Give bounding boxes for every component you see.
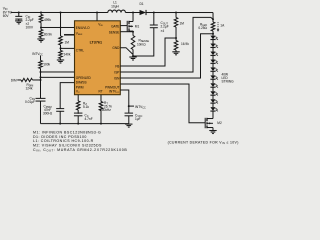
svg-text:RT: RT — [98, 90, 102, 94]
resistor 80.9k — [39, 27, 43, 39]
wire GATE pin to M1 — [120, 25, 127, 27]
wire SENSE pin to source node — [120, 31, 133, 33]
svg-text:INTVCC: INTVCC — [32, 52, 43, 57]
svg-text:1M: 1M — [65, 40, 70, 44]
wire INTVCC pin right and down — [120, 90, 129, 106]
wire VIN pin to rail — [96, 12, 98, 20]
LED D11 in string — [210, 107, 218, 115]
label COUT — [161, 21, 169, 33]
pin label GND — [112, 46, 120, 50]
pin label PWMOUT — [105, 85, 119, 89]
label 1M — [65, 40, 70, 44]
ground EN divider — [37, 39, 44, 42]
svg-text:1A: 1A — [220, 24, 225, 28]
pin label RT — [98, 90, 102, 94]
svg-text:DIM: DIM — [11, 78, 17, 82]
svg-text:FB: FB — [115, 64, 119, 68]
node junction CIN on VIN rail — [18, 11, 20, 13]
label 140k — [64, 53, 71, 57]
pin label DIM/SS — [76, 80, 87, 84]
resistor 100k — [39, 56, 43, 72]
label CSS — [25, 96, 35, 104]
node junction OPENLED — [40, 71, 42, 73]
capacitor COUT — [150, 13, 158, 28]
wire GND pin to ground node — [120, 48, 133, 55]
svg-text:140k: 140k — [64, 53, 71, 57]
LED D9 in string — [210, 91, 218, 99]
pin label OPENLED — [76, 76, 92, 80]
wire node down to CSS — [39, 80, 41, 99]
label D1 — [139, 2, 143, 6]
resistor 499k — [39, 12, 43, 27]
capacitor CPWM — [56, 109, 64, 124]
pin label GATE — [111, 25, 119, 29]
label M2 — [217, 121, 222, 125]
resistor 16.9k — [174, 38, 178, 52]
pin label VREF — [76, 32, 83, 36]
LED D4 in string — [210, 52, 218, 60]
LED D7 in string — [210, 75, 218, 83]
resistor 1M FB — [174, 13, 178, 39]
svg-text:499k: 499k — [44, 18, 51, 22]
pin label ISN — [114, 76, 120, 80]
label 499k — [44, 18, 51, 22]
inductor L1 — [108, 10, 126, 12]
wire bottom ground rail — [40, 123, 128, 125]
node DIM input label — [11, 78, 17, 82]
node junction COUT on rail — [153, 12, 155, 14]
svg-text:5.1k: 5.1k — [83, 105, 89, 109]
label RZ — [83, 102, 89, 110]
ground M2 — [209, 131, 216, 134]
wire FB pin to divider tap — [120, 38, 176, 66]
wire M1 drain to rail — [132, 13, 134, 22]
node CTRL tap — [60, 47, 62, 49]
LED D8 in string — [210, 83, 218, 91]
node junction INTVCC label tap — [128, 105, 134, 107]
resistor RZ 5.1k — [76, 101, 80, 114]
ground 16.9k — [172, 52, 179, 55]
label CVCC — [135, 114, 143, 122]
label RDIM — [25, 83, 33, 91]
wire DIMSS to pin — [41, 76, 75, 78]
wire top rail from VIN to L1 — [11, 11, 108, 13]
capacitor CSS — [35, 98, 45, 123]
svg-text:OPENLED: OPENLED — [76, 76, 92, 80]
wire CTRL tap to pin — [61, 47, 75, 49]
pin label ISP — [114, 70, 119, 74]
label component notes — [33, 130, 127, 152]
LED D2 in string — [210, 36, 218, 44]
node junction RDIM — [39, 79, 41, 81]
svg-text:M1: M1 — [135, 24, 140, 28]
svg-text:0.25Ω: 0.25Ω — [198, 26, 207, 30]
svg-text:2.2µF: 2.2µF — [161, 25, 169, 29]
node VIN input label — [3, 7, 13, 18]
wire ISN pin to RLED bottom — [120, 34, 213, 78]
svg-text:10µH: 10µH — [111, 4, 119, 8]
ground bottom rail — [125, 124, 132, 127]
svg-text:16.9k: 16.9k — [181, 42, 189, 46]
node INTVCC net label left — [32, 52, 43, 57]
svg-text:LT3761: LT3761 — [90, 41, 102, 45]
transistor M2 — [205, 118, 213, 128]
svg-text:100k: 100k — [43, 63, 50, 67]
node junction 1M on VIN rail — [60, 11, 62, 13]
node FB divider tap — [175, 37, 177, 39]
wire VREF stub — [64, 34, 75, 36]
svg-text:80.9k: 80.9k — [44, 33, 52, 37]
node EN/UVLO divider tap — [40, 26, 42, 28]
resistor RSENSE 10mOhm — [131, 31, 135, 56]
node junction CPWM on rail — [59, 123, 61, 125]
resistor RT 26.7k — [99, 95, 103, 124]
ground CTRL divider — [57, 60, 64, 63]
svg-text:INTVCC: INTVCC — [135, 105, 146, 110]
pin label INTVCC — [109, 90, 120, 94]
svg-text:D1: D1 — [139, 2, 143, 6]
svg-text:1M: 1M — [180, 22, 185, 26]
wire INTVCC down to CVCC — [128, 106, 130, 113]
label 1A current arrow — [217, 22, 225, 32]
label 80.9k — [44, 33, 52, 37]
svg-text:GND: GND — [112, 46, 120, 50]
label M1 — [135, 24, 140, 28]
svg-text:60V: 60V — [3, 14, 10, 18]
label LT3761 — [90, 41, 102, 45]
svg-text:350kHz: 350kHz — [100, 108, 111, 112]
pin label CTRL — [76, 48, 84, 52]
svg-text:CIN, COUT: MURATA GRM42-2X7R22: CIN, COUT: MURATA GRM42-2X7R225K100B — [33, 148, 127, 153]
pin label VC — [76, 90, 80, 94]
ground CIN — [15, 21, 22, 24]
svg-text:EN/UVLO: EN/UVLO — [76, 26, 90, 30]
capacitor CC — [74, 113, 83, 124]
LED D6 in string — [210, 67, 218, 75]
svg-text:GATE: GATE — [111, 25, 119, 29]
LED D10 in string — [210, 99, 218, 107]
LED D3 in string — [210, 44, 218, 52]
pin label VIN top — [98, 22, 103, 26]
wire PWM pin to CPWM — [60, 83, 74, 109]
label 1M FB — [180, 22, 185, 26]
wire PWMOUT to M2 gate — [120, 84, 205, 123]
svg-text:SENSE: SENSE — [109, 31, 120, 35]
node junction ISP tap — [212, 18, 214, 20]
pin label SENSE — [109, 31, 120, 35]
wire ISP pin to RLED top — [120, 17, 213, 72]
wire right rail corner down to RLED — [212, 13, 214, 23]
svg-text:DIM/SS: DIM/SS — [76, 80, 87, 84]
label RT value — [100, 101, 112, 112]
diode D1 — [140, 10, 147, 15]
svg-text:0.01µF: 0.01µF — [25, 100, 35, 104]
node junction RT on ground rail — [100, 123, 102, 125]
capacitor CIN — [15, 12, 22, 20]
resistor 140k — [59, 48, 63, 60]
wire OPENLED to pin — [41, 71, 75, 73]
wire top rail from D1 to right corner — [146, 12, 213, 14]
node junction 499k on VIN rail — [40, 11, 42, 13]
node junction DIMSS — [40, 76, 42, 78]
label CIN value — [26, 15, 34, 30]
label RLED — [198, 22, 207, 30]
node junction M1 source — [132, 31, 134, 33]
label RSENSE — [137, 39, 149, 47]
op-amp U1 LT3761 IC body — [74, 21, 120, 95]
wire top rail from L1 to D1 — [125, 12, 139, 14]
label 100k — [43, 63, 50, 67]
wire RDIM to node — [33, 79, 41, 81]
wire junction down to RDIM node — [40, 77, 42, 80]
svg-text:STRING: STRING — [221, 79, 234, 83]
transistor M1 — [127, 21, 133, 32]
label LED string — [221, 72, 234, 83]
label CPWM — [43, 105, 53, 116]
svg-text:10mΩ: 10mΩ — [137, 42, 146, 46]
svg-text:1µF: 1µF — [135, 117, 141, 121]
node INTVCC net label right — [135, 105, 146, 110]
pin label PWM — [76, 85, 84, 89]
svg-text:124k: 124k — [25, 86, 32, 90]
capacitor CVCC — [125, 113, 134, 124]
svg-text:300Hz: 300Hz — [43, 111, 53, 115]
wire EN/UVLO tap to pin — [41, 27, 75, 29]
node junction M1 drain on rail — [132, 12, 134, 14]
svg-text:CTRL: CTRL — [76, 48, 84, 52]
ground RSENSE — [129, 57, 136, 60]
wire DIM to RDIM — [17, 79, 21, 81]
svg-text:ISP: ISP — [114, 70, 119, 74]
node junction VIN pin on rail — [96, 11, 98, 13]
label CC — [84, 113, 92, 121]
pin label EN/UVLO — [76, 26, 90, 30]
wire LED string to M2 drain — [212, 111, 214, 119]
node junction CC on ground rail — [77, 123, 79, 125]
resistor 1M — [59, 12, 63, 48]
label L1 — [111, 1, 119, 9]
resistor RLED — [211, 19, 215, 36]
svg-text:×4: ×4 — [161, 29, 165, 33]
wire VC pin down — [77, 95, 79, 101]
svg-text:4.7nF: 4.7nF — [84, 117, 92, 121]
node junction ISN tap — [212, 33, 214, 35]
wire junction down to DIMSS — [40, 72, 42, 77]
label 16.9k — [181, 42, 189, 46]
node junction FB divider on rail — [175, 12, 177, 14]
LED D5 in string — [210, 59, 218, 67]
svg-text:ISN: ISN — [114, 76, 120, 80]
resistor RDIM 124k — [21, 78, 33, 81]
svg-text:M2: M2 — [217, 121, 222, 125]
wire M2 source to ground — [212, 128, 214, 131]
wire ground node to COUT bottom — [133, 28, 154, 56]
node junction RSENSE ground — [132, 55, 134, 57]
label current derating note — [168, 140, 239, 145]
svg-text:(CURRENT DERATED FOR VIN ≤ 10V: (CURRENT DERATED FOR VIN ≤ 10V) — [168, 140, 239, 145]
pin label FB — [115, 64, 119, 68]
svg-text:100V: 100V — [26, 26, 34, 30]
